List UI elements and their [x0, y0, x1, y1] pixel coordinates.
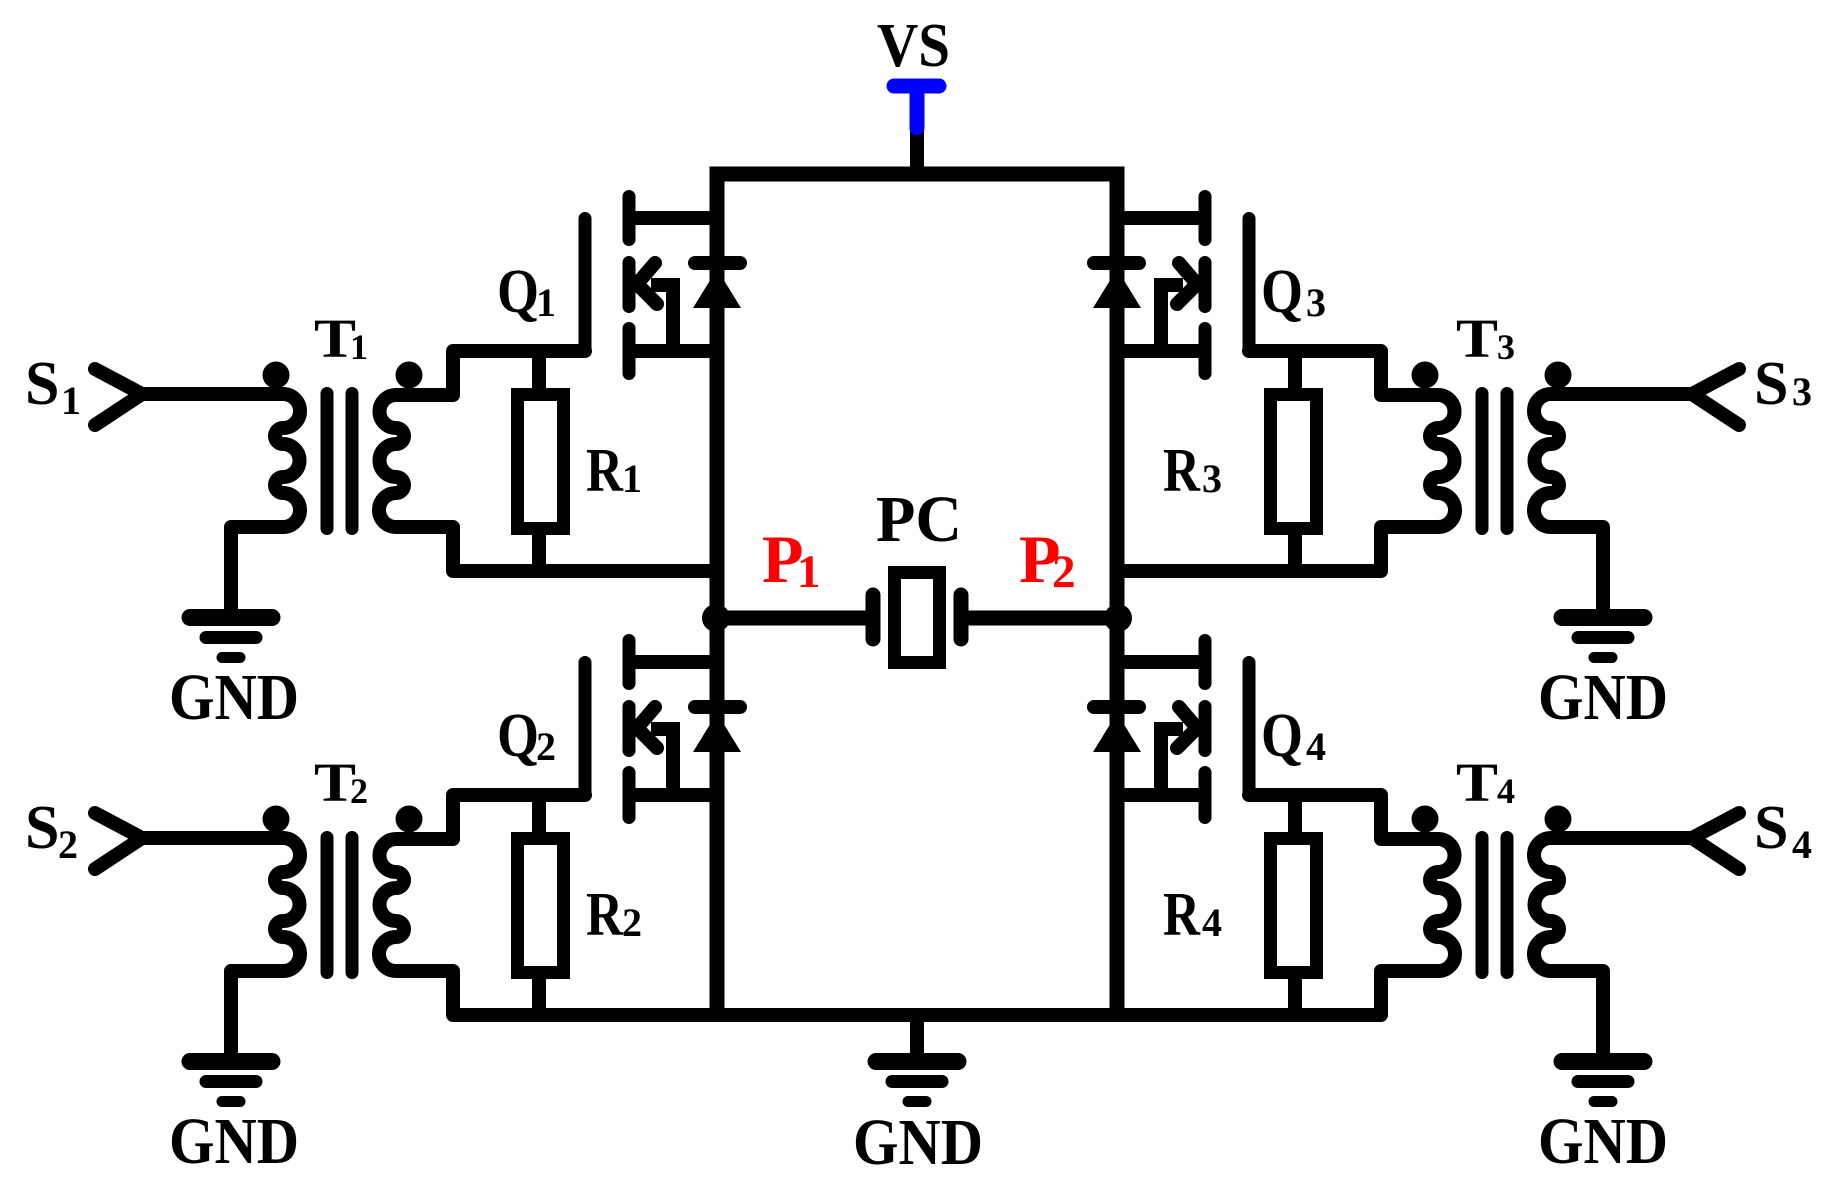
svg-text:1: 1 — [622, 456, 642, 501]
svg-text:3: 3 — [1306, 280, 1326, 325]
svg-text:GND: GND — [1538, 661, 1668, 734]
svg-text:3: 3 — [1792, 369, 1812, 414]
svg-text:2: 2 — [536, 724, 556, 769]
svg-text:2: 2 — [622, 900, 642, 945]
svg-text:GND: GND — [169, 1105, 299, 1178]
svg-text:S: S — [25, 350, 59, 418]
svg-text:2: 2 — [350, 771, 368, 811]
svg-text:1: 1 — [536, 280, 556, 325]
svg-text:R: R — [586, 437, 624, 505]
svg-text:GND: GND — [853, 1106, 983, 1179]
svg-text:GND: GND — [169, 661, 299, 734]
svg-text:4: 4 — [1792, 822, 1812, 867]
svg-text:Q: Q — [1261, 702, 1303, 770]
svg-text:R: R — [1163, 437, 1201, 505]
svg-text:3: 3 — [1497, 327, 1515, 367]
svg-text:3: 3 — [1202, 456, 1222, 501]
svg-text:1: 1 — [797, 546, 821, 598]
svg-text:PC: PC — [876, 483, 962, 556]
svg-text:GND: GND — [1538, 1105, 1668, 1178]
svg-text:2: 2 — [58, 822, 78, 867]
svg-text:T: T — [1456, 308, 1498, 369]
svg-text:4: 4 — [1306, 724, 1326, 769]
svg-text:R: R — [586, 881, 624, 949]
svg-text:1: 1 — [350, 327, 368, 367]
svg-text:T: T — [1456, 752, 1498, 813]
svg-text:S: S — [1754, 794, 1788, 862]
svg-text:1: 1 — [61, 378, 81, 423]
svg-text:Q: Q — [497, 702, 539, 770]
svg-text:S: S — [1754, 350, 1788, 418]
svg-text:Q: Q — [1261, 258, 1303, 326]
svg-text:Q: Q — [497, 258, 539, 326]
svg-text:S: S — [25, 794, 59, 862]
svg-text:4: 4 — [1497, 771, 1515, 811]
svg-text:2: 2 — [1052, 546, 1076, 598]
svg-text:VS: VS — [877, 12, 950, 80]
svg-text:R: R — [1163, 881, 1201, 949]
svg-text:4: 4 — [1202, 900, 1222, 945]
